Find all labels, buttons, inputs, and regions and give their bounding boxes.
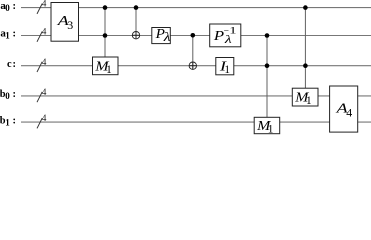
- svg-text::: :: [13, 89, 16, 100]
- svg-text:1: 1: [5, 117, 10, 127]
- svg-text::: :: [13, 29, 16, 40]
- svg-text:0: 0: [5, 3, 10, 13]
- svg-text:1: 1: [224, 64, 230, 76]
- svg-text:4: 4: [42, 0, 47, 9]
- svg-text::: :: [13, 115, 16, 126]
- svg-text:1: 1: [306, 95, 312, 107]
- svg-text:4: 4: [346, 105, 352, 119]
- svg-text:1: 1: [268, 124, 274, 136]
- svg-text:c: c: [7, 59, 12, 70]
- svg-text:0: 0: [5, 91, 10, 101]
- svg-text:3: 3: [67, 18, 73, 32]
- svg-text:λ: λ: [224, 34, 232, 47]
- svg-text::: :: [13, 1, 16, 12]
- svg-text:P: P: [213, 28, 224, 43]
- svg-text:1: 1: [5, 31, 10, 41]
- svg-text:1: 1: [106, 64, 112, 76]
- svg-text:4: 4: [42, 27, 47, 37]
- svg-text:4: 4: [42, 87, 47, 97]
- svg-text:λ: λ: [163, 31, 171, 44]
- svg-text::: :: [13, 59, 16, 70]
- svg-text:4: 4: [42, 113, 47, 123]
- svg-text:4: 4: [42, 57, 47, 67]
